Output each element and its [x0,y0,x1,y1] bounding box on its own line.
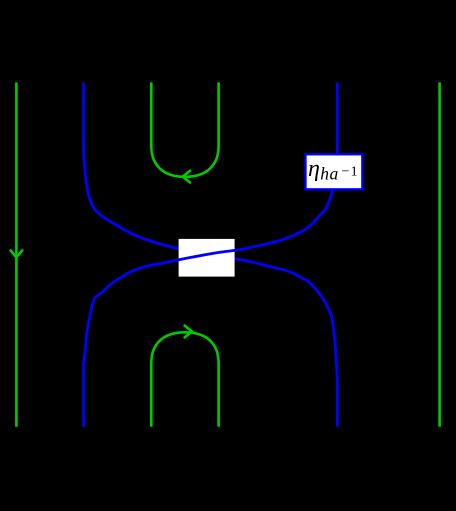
box eta_ha^-1 [306,154,363,189]
arrow green left (down) [10,250,23,258]
label eta_ha^-1 [308,156,358,184]
wire green cap (bottom U) [151,332,218,426]
wire green left [15,82,18,426]
wire blue eta input (top) [336,82,339,156]
svg-text:− 1: − 1 [342,164,358,179]
svg-text:η: η [308,156,320,182]
crossing mask box [179,239,235,277]
wire green right [438,82,441,426]
wire blue under strand (top-left to bottom-right) [84,82,338,426]
svg-text:ha: ha [320,164,339,184]
arrow green cup (left) [183,170,191,183]
wire blue over strand (bottom-left to eta box) [84,190,333,426]
wire green cup (top U) [151,82,218,176]
arrow green cap (right) [184,325,192,338]
